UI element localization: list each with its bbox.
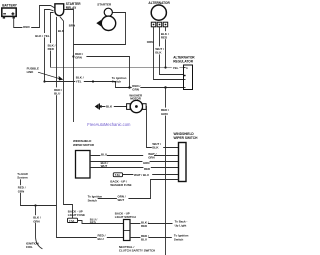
- pin 3: [163, 22, 168, 27]
- svg-text:GRN: GRN: [148, 155, 154, 159]
- wire washer motor to wiper switch pin1 WHT/BLK: [146, 107, 178, 148]
- svg-text:BLU: BLU: [101, 153, 107, 157]
- svg-text:GRN: GRN: [132, 88, 139, 92]
- back-up light switch S2: [115, 212, 136, 241]
- node: splice dot on BLK/YEL wire: [92, 80, 94, 82]
- svg-text:System: System: [17, 176, 28, 180]
- fusible link callout: [27, 67, 64, 81]
- starter M1: [96, 2, 115, 30]
- wire alternator pin2 WHT/BLK to regulator: [160, 27, 184, 75]
- svg-text:7.5A: 7.5A: [115, 174, 120, 177]
- svg-text:GRN: GRN: [75, 56, 82, 60]
- svg-text:WHT: WHT: [118, 198, 125, 202]
- windshield wiper switch S1: [174, 132, 199, 182]
- svg-text:Switch: Switch: [174, 237, 184, 241]
- wire wiper motor WHT to switch: [90, 167, 179, 169]
- svg-text:7.5A: 7.5A: [69, 220, 74, 223]
- wire long vertical RED/GRN down right side: [165, 88, 167, 255]
- pin 2: [157, 22, 162, 27]
- svg-text:BLK: BLK: [58, 29, 65, 33]
- svg-text:LINK: LINK: [27, 70, 35, 74]
- wire relay right to starter solenoid, BRN: [64, 10, 74, 123]
- svg-text:Switch: Switch: [112, 80, 122, 84]
- svg-text:BLU: BLU: [54, 92, 60, 96]
- node: junction dot at ignition tie point: [128, 86, 130, 88]
- wire ignition feed RED/GRN: [74, 57, 130, 88]
- svg-text:RED: RED: [90, 221, 96, 225]
- svg-text:LIGHT FUSE: LIGHT FUSE: [68, 213, 85, 217]
- wire alternator pin1 ORN to regulator: [154, 27, 184, 80]
- pin 1: [151, 22, 156, 27]
- label RED: [143, 167, 150, 171]
- pin F: [184, 87, 186, 89]
- svg-text:STARTER: STARTER: [97, 2, 112, 6]
- svg-text:RED: RED: [141, 224, 147, 228]
- svg-text:COIL: COIL: [26, 245, 33, 249]
- wire fuse to wiper switch WHT/BLU: [123, 174, 179, 176]
- svg-text:FreeAutoMechanic.com: FreeAutoMechanic.com: [87, 122, 131, 127]
- svg-text:ORN: ORN: [147, 40, 154, 44]
- svg-text:Up Light: Up Light: [175, 223, 187, 227]
- wire relay bottom left to neutral safety switch, RED/BLU: [57, 17, 124, 238]
- pin S: [184, 75, 186, 77]
- wire to ignition coil BLK/GRN: [36, 206, 43, 249]
- node: junction YEL / BLK-RED at regulator A wire: [164, 66, 166, 68]
- svg-text:WHT: WHT: [101, 164, 108, 168]
- wire relay bottom to back-up fuse, BLK: [60, 17, 73, 219]
- wire junction to regulator RED/GRN: [130, 87, 184, 89]
- svg-text:A: A: [186, 67, 188, 70]
- node: junction dot to wiper feed: [164, 86, 166, 88]
- svg-text:BLK: BLK: [106, 104, 113, 108]
- wire battery positive to starter relay, RED: [14, 6, 55, 28]
- alternator G1: [148, 1, 170, 27]
- svg-text:RED: RED: [23, 25, 30, 29]
- svg-text:WIPER MOTOR: WIPER MOTOR: [73, 143, 95, 147]
- wire relay terminal 3 to voltage regulator, YEL: [51, 13, 54, 68]
- wire BLK to washer motor: [101, 106, 127, 108]
- svg-text:BLK: BLK: [152, 146, 159, 150]
- svg-text:BLU: BLU: [98, 237, 104, 241]
- svg-text:LIGHT SWITCH: LIGHT SWITCH: [115, 215, 136, 219]
- svg-text:BLK / YEL: BLK / YEL: [35, 34, 50, 38]
- svg-text:YEL: YEL: [76, 79, 82, 83]
- wire fuse to back-up light switch BLU/RED: [78, 221, 124, 224]
- wire switch to ignition RED/BLU: [130, 237, 172, 239]
- node: junction dot BLK/YEL to ignition wire: [43, 80, 45, 82]
- washer motor M2: [127, 93, 147, 112]
- label GRN: [142, 161, 149, 165]
- svg-text:BLU: BLU: [141, 237, 147, 241]
- node: junction dot EGR / coil: [34, 204, 36, 206]
- svg-text:WIPER SWITCH: WIPER SWITCH: [174, 136, 199, 140]
- label WHT / GRN on switch wire: [143, 151, 154, 158]
- svg-text:BATTERY: BATTERY: [2, 3, 18, 7]
- svg-text:RED: RED: [144, 167, 150, 171]
- wire BLK/YEL to ignition switch: [45, 82, 130, 88]
- svg-text:RED: RED: [161, 36, 168, 40]
- starter relay K1: [55, 2, 81, 16]
- svg-text:Switch: Switch: [88, 198, 98, 202]
- svg-text:YEL: YEL: [173, 66, 179, 70]
- wire wiper motor middle to switch: [90, 161, 179, 163]
- svg-text:WASHER FUSE: WASHER FUSE: [110, 183, 131, 187]
- svg-text:WHT / BLU: WHT / BLU: [134, 173, 149, 177]
- svg-text:CLUTCH SAFETY SWITCH: CLUTCH SAFETY SWITCH: [119, 249, 155, 253]
- pin A: [184, 67, 186, 69]
- pin I: [184, 79, 186, 81]
- back-up / washer fuse F1: [110, 173, 131, 187]
- windshield wiper motor M3: [73, 139, 95, 178]
- battery B1: [2, 3, 18, 18]
- svg-text:GRN: GRN: [18, 189, 24, 193]
- svg-text:BRN: BRN: [69, 23, 76, 27]
- inline connector to washer motor: [95, 103, 103, 109]
- wire relay terminal 2, BLK/YEL: [45, 10, 54, 82]
- svg-text:BLK: BLK: [155, 51, 162, 55]
- svg-text:REGULATOR: REGULATOR: [173, 59, 194, 63]
- svg-text:GRN: GRN: [143, 161, 149, 165]
- alternator regulator U1: [173, 55, 195, 89]
- wire alternator pin3 BLK/RED to junction: [165, 27, 167, 68]
- wire switch to back-up lights BLK/RED: [130, 223, 173, 225]
- svg-text:GRN: GRN: [161, 112, 168, 116]
- svg-text:ALTERNATOR: ALTERNATOR: [148, 1, 170, 5]
- wire wiper motor BLU to switch: [90, 155, 179, 157]
- svg-text:RED: RED: [48, 47, 55, 51]
- back-up light fuse F2: [68, 210, 86, 223]
- node: junction dot RED/GRN takeoff: [72, 55, 74, 57]
- svg-text:GRN: GRN: [33, 219, 39, 223]
